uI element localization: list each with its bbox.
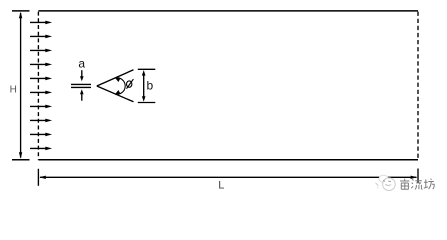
svg-text:H: H: [10, 84, 17, 95]
flat plate lower line: [71, 86, 91, 88]
inlet boundary dashed: [37, 12, 39, 160]
watermark logo: [376, 175, 396, 190]
dimension b top tick: [138, 68, 156, 70]
inflow arrow 3: [30, 49, 52, 53]
angle arc: [115, 78, 125, 95]
outlet boundary dashed: [417, 12, 419, 160]
svg-text:b: b: [146, 78, 153, 92]
svg-text:a: a: [78, 56, 85, 70]
H dimension bottom tick: [12, 159, 30, 161]
domain top wall: [38, 10, 418, 12]
inflow arrow 10: [30, 147, 52, 151]
watermark text nan: [400, 179, 409, 190]
dimension a upper arrow: [80, 70, 84, 81]
inflow arrow 8: [30, 119, 52, 123]
L dimension right tick: [417, 169, 419, 183]
inflow arrow 4: [30, 63, 52, 67]
L dimension line: [39, 176, 417, 179]
watermark text liu: [411, 179, 422, 189]
L dimension left tick: [37, 169, 39, 186]
inflow arrow 2: [30, 35, 52, 39]
dimension a lower arrow: [80, 89, 84, 100]
inflow arrow 9: [30, 133, 52, 137]
domain bottom wall: [38, 159, 418, 161]
inflow arrow 6: [30, 91, 52, 95]
label phi: [127, 79, 134, 89]
inflow arrow 1: [30, 21, 52, 25]
H dimension top tick: [12, 10, 30, 12]
wedge lower edge: [97, 86, 134, 102]
inflow arrow 7: [30, 105, 52, 109]
svg-text:L: L: [218, 180, 224, 192]
inflow arrow 5: [30, 77, 52, 81]
dimension b bottom tick: [138, 102, 156, 104]
flat plate upper line: [71, 83, 91, 85]
watermark text fang: [424, 179, 434, 190]
H dimension line: [19, 12, 22, 159]
dimension b arrow: [142, 70, 146, 102]
wedge upper edge: [97, 70, 134, 86]
